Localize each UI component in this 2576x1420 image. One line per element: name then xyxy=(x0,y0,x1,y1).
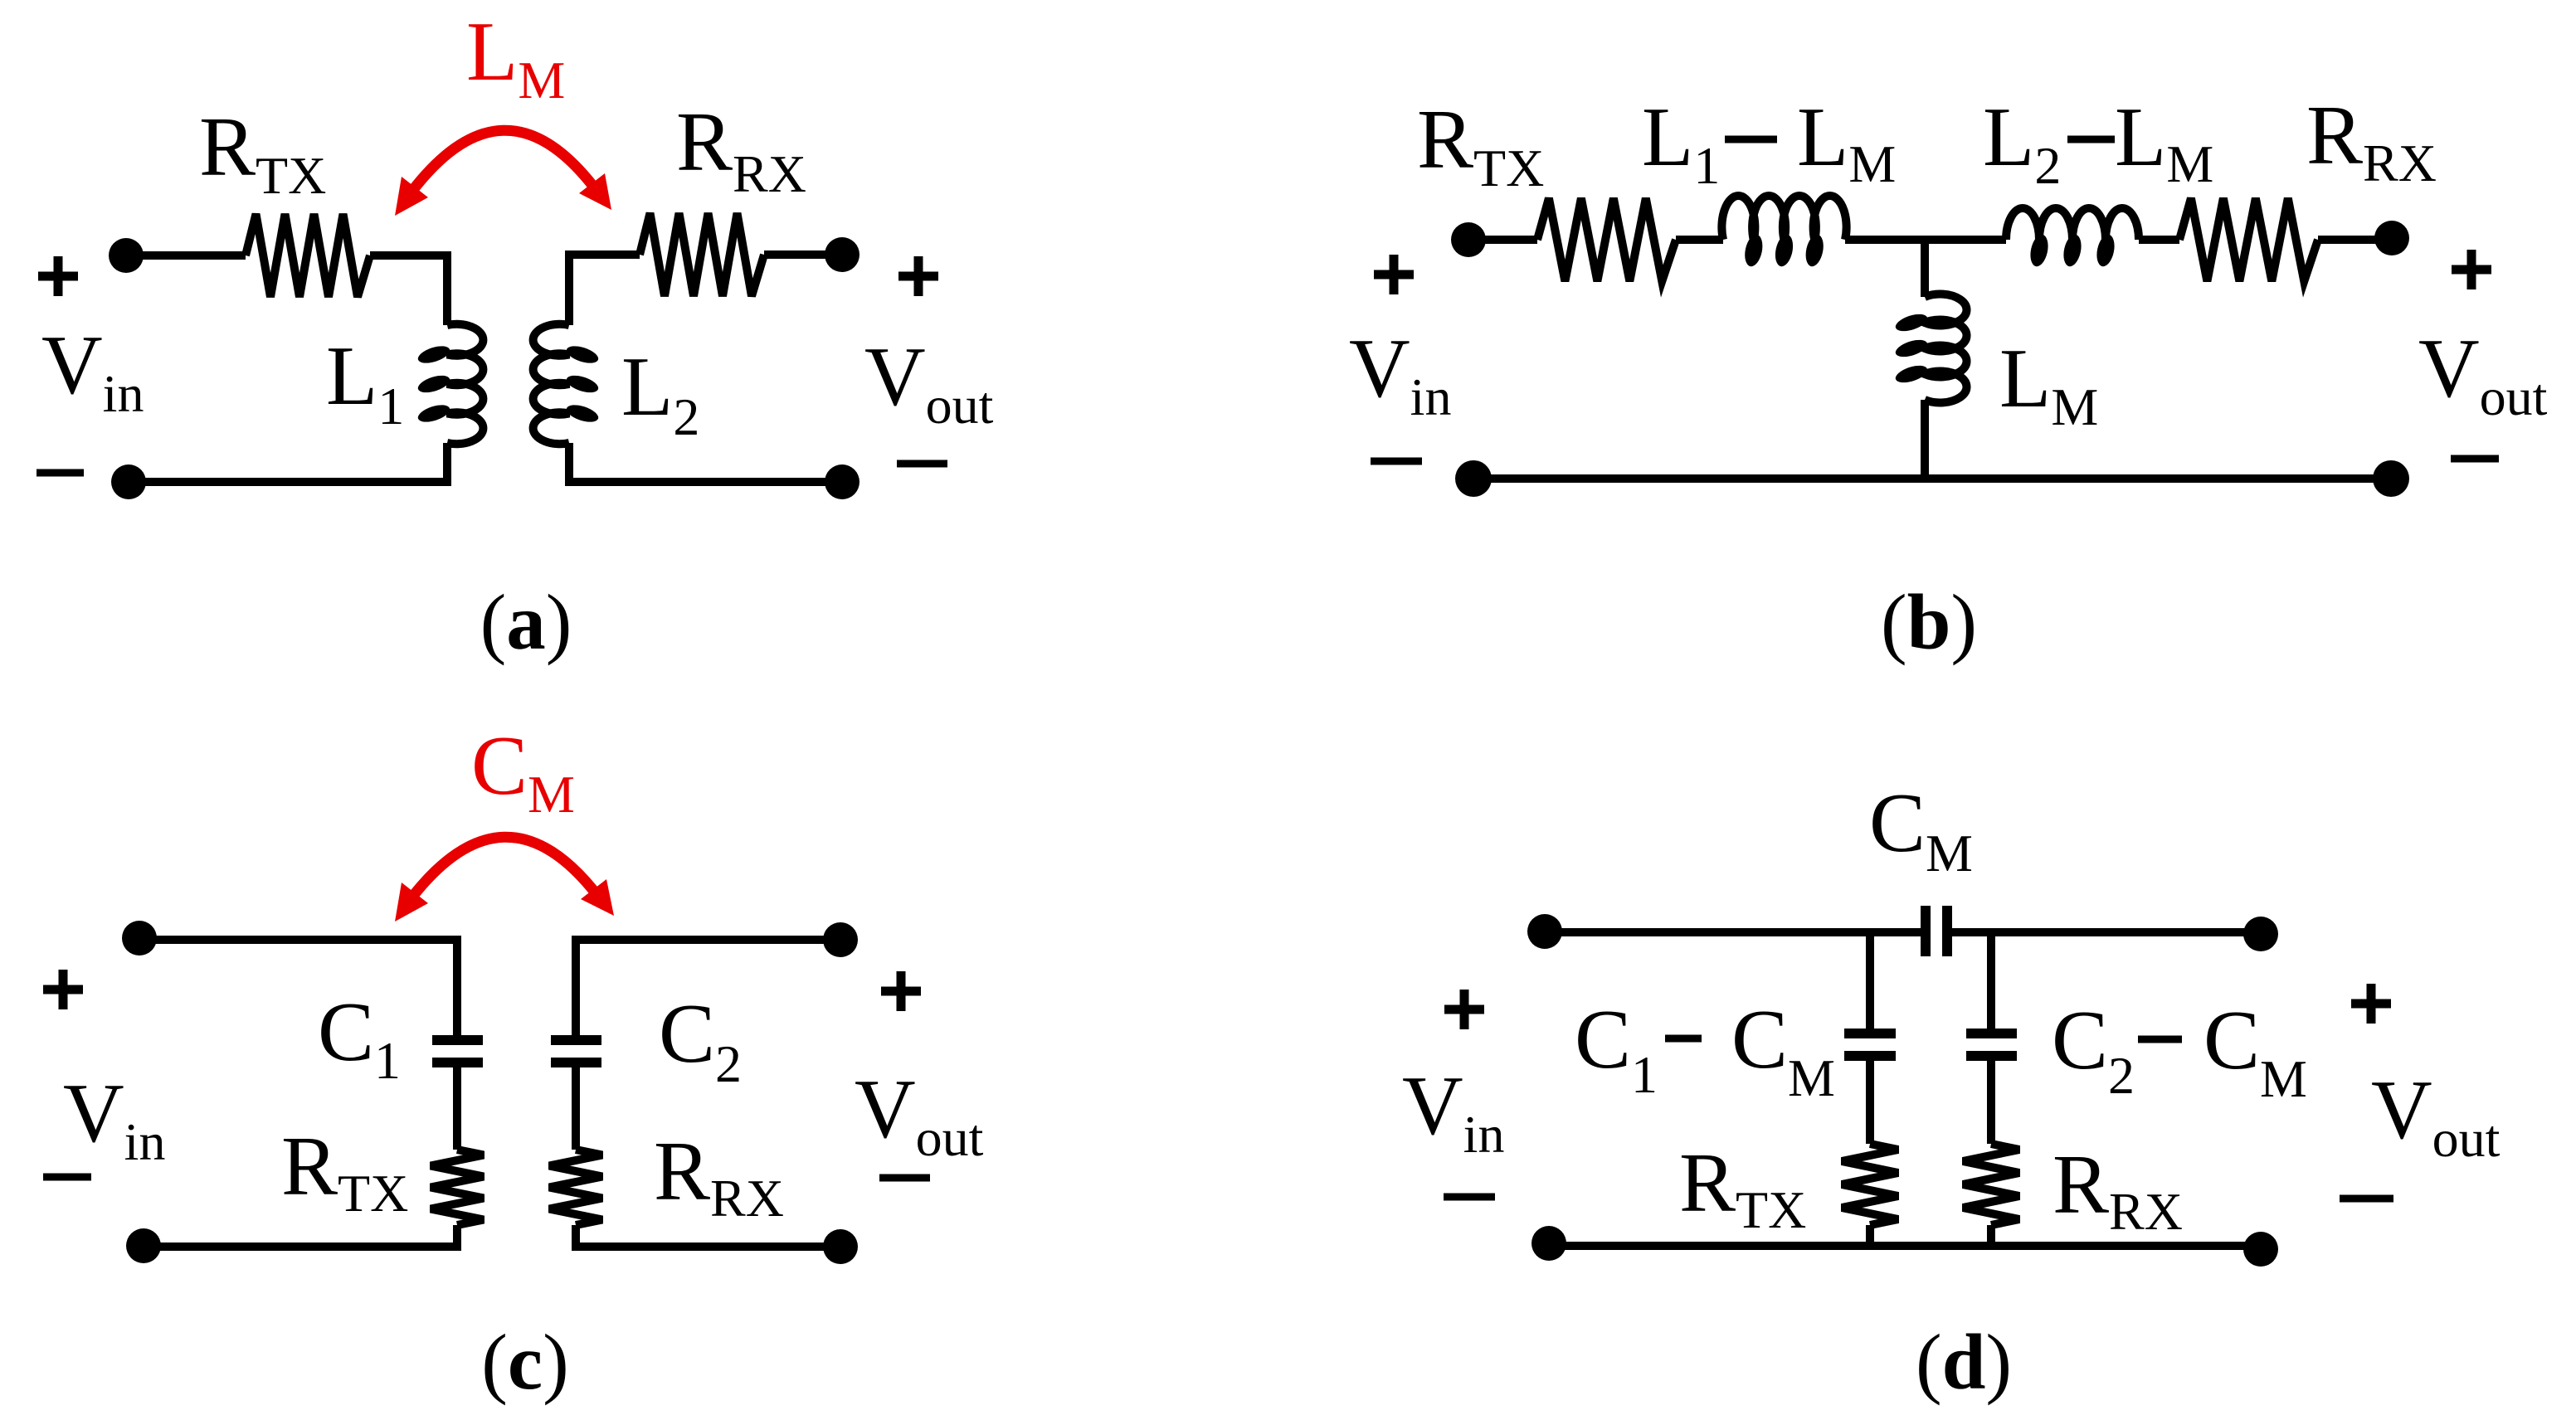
wire node to RTX (b) xyxy=(1475,236,1537,244)
plus sign Vout (d) xyxy=(2351,984,2391,1024)
svg-text:(d): (d) xyxy=(1916,1318,2012,1406)
wire RTX to L1-LM coil (b) xyxy=(1676,236,1723,244)
resistor RTX (a) xyxy=(246,214,370,297)
capacitor C1 (c) xyxy=(432,1040,483,1063)
bottom rail (d) xyxy=(1556,1242,2250,1250)
node Vout+ terminal (b) xyxy=(2374,221,2409,255)
node Vin+ terminal (a) xyxy=(109,238,144,273)
node Vin- terminal (a) xyxy=(111,464,146,499)
wire RTX to bottom rail (c) xyxy=(149,1225,457,1247)
svg-text:(b): (b) xyxy=(1881,578,1977,666)
minus sign Vout (d) xyxy=(2340,1195,2393,1203)
wire L2 top corner (a) xyxy=(569,255,640,325)
resistor RTX (c) xyxy=(431,1150,484,1225)
wire L2-LM to RRX (b) xyxy=(2139,236,2179,244)
minus sign Vin (c) xyxy=(43,1174,91,1181)
wire RTX to L1 corner (a) xyxy=(370,255,447,325)
resistor RTX (b) xyxy=(1537,198,1676,281)
node Vout- terminal (a) xyxy=(825,464,859,499)
svg-text:(c): (c) xyxy=(481,1318,568,1406)
resistor RTX (d) xyxy=(1842,1144,1898,1225)
node Vout+ terminal (a) xyxy=(825,237,859,272)
arrowhead left red (a) xyxy=(395,177,428,216)
capacitor C1-CM (d) xyxy=(1844,1033,1896,1056)
arrowhead right red (c) xyxy=(581,879,614,916)
coupling arc red (c) xyxy=(407,837,599,903)
arrowhead right red (a) xyxy=(579,173,611,210)
plus sign Vin (d) xyxy=(1444,990,1484,1029)
minus sign Vout (a) xyxy=(897,460,947,468)
inductor L1 (a) xyxy=(416,324,483,445)
inductor L2-LM (b) xyxy=(2006,208,2139,268)
wire C1-CM to RTX (d) xyxy=(1866,1061,1874,1144)
wire RRX to Vout+ node (a) xyxy=(764,250,830,259)
node Vin- terminal (c) xyxy=(126,1228,161,1263)
arrowhead left red (c) xyxy=(395,883,428,922)
wire L1-LM to L2-LM through T junction (b) xyxy=(1845,236,2006,244)
bottom rail (b) xyxy=(1480,474,2384,483)
node Vout+ terminal (d) xyxy=(2243,917,2278,951)
node Vin+ terminal (c) xyxy=(122,921,157,956)
wire RRX to bottom rail (d) xyxy=(1987,1225,1995,1246)
wire top-right to C2 (c) xyxy=(576,940,830,1038)
plus sign Vout (c) xyxy=(881,971,921,1011)
wire C1 to RTX (c) xyxy=(453,1067,461,1150)
inductor L2 (a) xyxy=(533,324,601,445)
top rail right segment (d) xyxy=(1951,928,2250,936)
inductor L1-LM (b) xyxy=(1721,196,1846,268)
node Vout- terminal (d) xyxy=(2243,1232,2278,1267)
wire RRX to bottom rail (c) xyxy=(576,1225,830,1247)
inductor LM shunt (b) xyxy=(1893,294,1966,403)
capacitor C2 (c) xyxy=(551,1040,601,1063)
resistor RRX (a) xyxy=(640,213,764,296)
minus sign Vout (b) xyxy=(2451,455,2499,463)
node Vout- terminal (c) xyxy=(823,1229,858,1264)
wire L2 bottom to rail (a) xyxy=(569,443,830,482)
wire L1 bottom to rail (a) xyxy=(133,443,447,482)
wire LM to bottom rail (b) xyxy=(1921,400,1929,479)
wire C2-CM branch upper (d) xyxy=(1987,932,1995,1029)
plus sign Vout (b) xyxy=(2452,250,2491,289)
minus sign Vout (c) xyxy=(879,1174,930,1182)
wire C2 to RRX (c) xyxy=(572,1067,580,1150)
node Vin+ terminal (d) xyxy=(1527,914,1562,949)
plus sign Vin (a) xyxy=(38,256,78,296)
minus sign Vin (a) xyxy=(37,469,84,477)
wire RTX to bottom rail (d) xyxy=(1866,1225,1874,1246)
coupling arc red (a) xyxy=(407,130,597,197)
capacitor CM series (d) xyxy=(1926,906,1947,956)
node Vin+ terminal (b) xyxy=(1451,222,1486,257)
node Vout+ terminal (c) xyxy=(823,922,858,957)
wire T junction down (b) xyxy=(1921,240,1929,297)
top rail left segment (d) xyxy=(1551,928,1921,936)
minus sign Vin (d) xyxy=(1444,1194,1495,1201)
wire C2-CM to RRX (d) xyxy=(1987,1061,1995,1144)
plus sign Vin (c) xyxy=(43,970,83,1009)
plus sign Vin (b) xyxy=(1374,255,1414,294)
wire top-left (a) xyxy=(133,251,246,260)
wire RRX to Vout+ node (b) xyxy=(2318,236,2381,244)
resistor RRX (d) xyxy=(1963,1144,2019,1225)
plus sign Vout (a) xyxy=(898,256,938,296)
node Vout- terminal (b) xyxy=(2373,460,2409,497)
capacitor C2-CM (d) xyxy=(1966,1033,2017,1056)
resistor RRX (b) xyxy=(2179,198,2318,281)
node Vin- terminal (b) xyxy=(1455,460,1492,497)
wire top-left to C1 (c) xyxy=(146,940,457,1038)
node Vin- terminal (d) xyxy=(1531,1226,1566,1261)
minus sign Vin (b) xyxy=(1371,458,1422,465)
wire C1-CM branch upper (d) xyxy=(1866,932,1874,1029)
resistor RRX (c) xyxy=(549,1150,602,1225)
svg-text:(a): (a) xyxy=(480,578,572,666)
